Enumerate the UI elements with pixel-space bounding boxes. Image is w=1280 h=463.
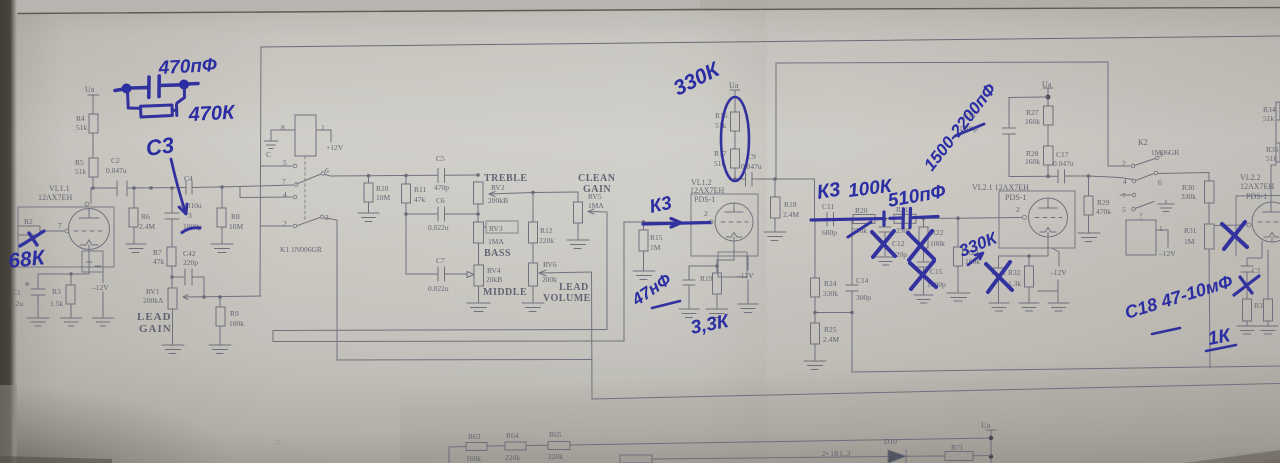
wire RV2 wiper bus to R12 and RV5 — [533, 191, 578, 194]
resistor R63 (horizontal) — [466, 443, 487, 451]
ground under R23 — [947, 293, 970, 301]
wire RV4 bottom to ground — [478, 286, 480, 303]
INK:blue handwriting — [7, 55, 1259, 351]
heater wire -12V VL1.1 — [102, 267, 104, 318]
junction dots C6 row — [404, 212, 480, 216]
svg-text:K1 1N006GR: K1 1N006GR — [280, 245, 322, 254]
ground under R19 — [706, 309, 728, 318]
svg-text:20kB: 20kB — [486, 275, 502, 284]
junction dot C12 node — [883, 217, 887, 221]
IC box bottom partial — [620, 455, 652, 463]
svg-text:R27: R27 — [1026, 108, 1039, 117]
junction dot cathode node — [69, 272, 73, 276]
handwritten slash over C19 — [1234, 276, 1259, 295]
diode D10 — [888, 450, 906, 463]
capacitor C3 — [165, 188, 179, 245]
svg-text:8: 8 — [281, 123, 285, 132]
K1 contact 5 — [261, 165, 292, 167]
ground under C1 — [27, 318, 49, 326]
ground under R18 — [764, 232, 786, 241]
K2 contact 5 — [1132, 207, 1136, 211]
bottom darker right half — [0, 0, 1, 1]
ground under heater — [92, 318, 114, 326]
wire: vertical from RV6 wiper down — [591, 272, 594, 399]
capacitor C5 — [438, 169, 445, 183]
potentiometer RV6 LEAD VOLUME — [529, 263, 538, 286]
wire RV3 to RV4 — [478, 243, 480, 265]
svg-text:200k: 200k — [542, 275, 557, 284]
svg-text:C1: C1 — [1252, 266, 1261, 275]
enclosure box K1 tone area: top edge — [261, 36, 1280, 47]
potentiometer RV2 TREBLE — [474, 182, 484, 204]
handwritten X over C15 — [910, 261, 936, 289]
svg-text:4: 4 — [283, 190, 287, 199]
K1 dashed actuator line — [304, 156, 306, 222]
svg-text:2: 2 — [1122, 159, 1126, 168]
svg-text:0.022u: 0.022u — [428, 223, 449, 232]
top strip above sheet edge (slightly darker gray) — [0, 0, 1280, 15]
svg-text:–12V: –12V — [736, 271, 754, 280]
grid circle VL1.1 — [65, 229, 69, 233]
capacitor C6 — [438, 207, 445, 221]
svg-text:2• 1R1..3: 2• 1R1..3 — [822, 449, 851, 458]
wire RV5 top from wiper bus — [577, 192, 579, 202]
ground under R8 — [211, 244, 233, 253]
svg-text:+12V: +12V — [326, 143, 344, 152]
tube VL2.1 grid dashes — [1035, 217, 1062, 219]
svg-text:7: 7 — [58, 221, 62, 230]
wire RV5 bottom to ground — [577, 223, 579, 240]
K1 pin6 wire to tone bus — [325, 175, 368, 177]
handwritten sketch node dots — [122, 80, 190, 94]
K1 contact 2 — [261, 225, 292, 227]
svg-text:D10: D10 — [884, 437, 897, 446]
svg-text:51k: 51k — [75, 167, 87, 176]
tube VL2.2 grid dashes — [1258, 221, 1278, 223]
junction dots stage1 bus — [91, 185, 224, 190]
svg-text:PDS-1: PDS-1 — [694, 195, 715, 204]
svg-text:R3: R3 — [52, 287, 61, 296]
svg-text:C5: C5 — [436, 154, 445, 163]
grid circle VL1.2 — [709, 220, 713, 224]
faint vertical crease — [0, 0, 1, 1]
handwritten X near R31 — [1222, 222, 1247, 249]
node Ua stage1 — [88, 95, 99, 114]
svg-text:300p: 300p — [856, 293, 871, 302]
svg-text:12AX7EH: 12AX7EH — [690, 186, 724, 195]
svg-text:3: 3 — [1159, 150, 1163, 159]
wire R23 node to VL2.1 grid — [958, 216, 1022, 219]
svg-text:R16: R16 — [715, 111, 728, 120]
ground under R25 — [804, 361, 826, 370]
svg-text:220k: 220k — [539, 236, 554, 245]
potentiometer RV5 CLEAN GAIN — [574, 202, 583, 223]
resistor R2 input — [18, 226, 40, 235]
K1 moving arm 2-3 — [297, 218, 320, 226]
grid wire VL1.2 — [624, 221, 709, 223]
junction dots tone bus — [367, 173, 480, 177]
resistor R10 — [368, 176, 370, 213]
capacitor C12 — [879, 219, 891, 257]
tube VL1.1 circle — [69, 209, 110, 250]
cathode wire VL2.1 — [1029, 237, 1048, 266]
relay K1 coil box — [295, 115, 316, 156]
tube VL1.2 envelope box — [691, 194, 758, 256]
svg-text:Ua: Ua — [85, 85, 95, 94]
svg-text:220p: 220p — [183, 258, 198, 267]
cathode wire to node — [38, 249, 89, 274]
svg-text:C11: C11 — [822, 202, 834, 211]
capacitor C18 (crossed out) — [992, 256, 1029, 303]
RV6 wiper arrow — [539, 270, 592, 276]
svg-text:470пФ: 470пФ — [157, 55, 217, 79]
svg-text:470К: 470К — [187, 102, 236, 127]
wire RV2 bottom to RV3 — [477, 204, 479, 222]
wire RV6 bottom to ground — [532, 286, 534, 303]
wire: long output bus lower — [592, 384, 1280, 400]
svg-text:220k: 220k — [505, 453, 520, 462]
svg-text:4: 4 — [1123, 177, 1127, 186]
tube VL1.2 cathode chevron — [726, 233, 742, 242]
enclosure box VL1.2 area: top and sides — [776, 62, 1108, 179]
svg-text:R18: R18 — [784, 200, 797, 209]
svg-text:1MA: 1MA — [588, 201, 604, 210]
junction dot C42 to wiper wire — [202, 295, 206, 299]
handwritten slash over C16 value — [955, 124, 984, 136]
handwritten underline 47nF — [652, 301, 680, 308]
junction dot grid R15 — [642, 220, 646, 224]
svg-text:C42: C42 — [183, 249, 196, 258]
svg-text:RV2: RV2 — [491, 183, 505, 192]
svg-text:–12V: –12V — [1049, 268, 1067, 277]
svg-text:LEAD: LEAD — [559, 282, 589, 293]
svg-text:1: 1 — [1159, 224, 1163, 233]
svg-text:–12V: –12V — [1158, 249, 1176, 258]
tube VL2.2 anode plate — [1263, 202, 1280, 212]
tube VL1.1 envelope box — [18, 207, 114, 267]
resistor R21 (horizontal) — [894, 214, 916, 223]
junction dot R18 top — [773, 177, 777, 181]
resistor R28 — [1044, 146, 1054, 165]
junction dots R24/C14 — [813, 311, 854, 315]
wire R28 to anode line — [1047, 165, 1049, 176]
handwritten overdraw VL1.2 grid wire with arrow — [643, 219, 710, 228]
svg-text:C15: C15 — [930, 267, 943, 276]
svg-text:R64: R64 — [506, 431, 519, 440]
RV5 wiper arrow — [588, 209, 607, 214]
svg-text:2: 2 — [283, 219, 287, 228]
svg-text:R9: R9 — [230, 309, 239, 318]
svg-text:R10: R10 — [376, 184, 389, 193]
tube VL1.1 heater box — [82, 251, 103, 272]
svg-text:0.047u: 0.047u — [106, 166, 127, 175]
resistor R71 (horizontal) — [945, 452, 973, 461]
lower bottom wire partial — [652, 456, 991, 460]
svg-text:220k: 220k — [548, 452, 563, 461]
svg-text:200kA: 200kA — [143, 296, 164, 305]
ground under C12 — [876, 257, 895, 265]
svg-text:R12: R12 — [540, 226, 553, 235]
capacitor C2 — [117, 181, 127, 196]
node Ua VL1.2 — [730, 90, 740, 112]
K2 pin1 wire to -12V — [1156, 230, 1168, 247]
resistor R22 — [923, 218, 925, 262]
resistor R37 — [1267, 250, 1269, 326]
dark left photo edge — [0, 0, 17, 463]
handwritten slash over R20 value — [848, 222, 871, 237]
K1 pin3 wire down to bus L3 — [324, 218, 337, 360]
capacitor C11 — [827, 213, 834, 227]
svg-text:C1: C1 — [12, 288, 21, 297]
svg-text:VOLUME: VOLUME — [543, 293, 591, 304]
tube VL1.1 grid dashes — [74, 230, 102, 232]
RV3 label callout box — [486, 221, 518, 233]
wire R5 to anode bus — [92, 177, 94, 188]
tube VL2.2 envelope box — [1236, 196, 1280, 257]
svg-text:2.4M: 2.4M — [783, 210, 799, 219]
svg-text:R4: R4 — [76, 114, 85, 123]
resistor R6 — [133, 188, 135, 244]
svg-text:VL2.1 12AX7EH: VL2.1 12AX7EH — [972, 183, 1029, 192]
ground under R6 — [126, 244, 146, 253]
svg-text:1: 1 — [321, 123, 325, 132]
wire R24 node to C14 — [815, 312, 852, 314]
svg-text:C14: C14 — [856, 276, 869, 285]
wire R16-R17 — [734, 131, 736, 149]
svg-text:R35: R35 — [1266, 145, 1279, 154]
resistor R65 (horizontal) — [548, 442, 570, 450]
svg-text:51k: 51k — [1266, 154, 1278, 163]
wire R30 to R31 — [1208, 203, 1210, 224]
svg-text:47k: 47k — [414, 195, 426, 204]
handwritten X over C12 — [872, 231, 895, 257]
svg-text:R30: R30 — [1182, 183, 1195, 192]
svg-text:680p: 680p — [822, 228, 837, 237]
svg-text:R15: R15 — [650, 233, 663, 242]
ground under RV4 — [467, 303, 490, 312]
RV1 wiper arrow — [183, 295, 261, 300]
svg-text:12AX7EH: 12AX7EH — [1240, 182, 1274, 191]
svg-text:RV4: RV4 — [487, 266, 501, 275]
svg-text:0.022u: 0.022u — [428, 284, 449, 293]
resistor R9 — [219, 297, 221, 345]
anode wire to C9 — [735, 178, 745, 180]
svg-text:1M: 1M — [1184, 237, 1195, 246]
bottom-right dark wedge — [1160, 440, 1280, 463]
svg-text:0.047u: 0.047u — [1053, 159, 1074, 168]
svg-text:2: 2 — [1016, 205, 1020, 214]
wire R2 to grid, pin 7 — [40, 230, 65, 232]
wire R27-R28 — [1047, 125, 1049, 146]
ground under R15 — [633, 271, 655, 280]
svg-text:R29: R29 — [1097, 198, 1110, 207]
svg-text:BASS: BASS — [484, 248, 511, 259]
svg-text:470p: 470p — [434, 183, 449, 192]
grid circle VL2.2 — [1247, 223, 1251, 227]
K2 moving arm 2-3 — [1135, 159, 1156, 166]
svg-text:K2: K2 — [1138, 138, 1148, 147]
enclosure box K1 tone area: left edge — [260, 47, 261, 296]
svg-text:7: 7 — [1122, 191, 1126, 200]
svg-text:5: 5 — [283, 158, 287, 167]
handwritten X over C18 — [986, 262, 1012, 292]
K2 moving arm 4-6 — [1136, 174, 1155, 181]
svg-text:R65: R65 — [549, 430, 562, 439]
wire corner to C11 — [815, 218, 828, 220]
ground under R3 — [60, 318, 82, 326]
handwritten capacitor sketch 510pF — [890, 209, 938, 229]
svg-text:R19: R19 — [700, 274, 713, 283]
svg-text:C7: C7 — [436, 256, 445, 265]
wire: vertical from RV5 wiper down to L1 — [606, 212, 608, 330]
wire C7 to RV4 wiper — [445, 272, 475, 278]
resistor R27 — [1044, 106, 1054, 125]
wire C9 to corner — [752, 179, 815, 220]
junction dot R23 node — [956, 216, 960, 220]
tube VL1.1 cathode chevron — [80, 240, 98, 249]
K2 contact 2 wire from box3 edge — [1108, 165, 1130, 167]
K1 contact 7 with wire from stage1 — [240, 185, 293, 187]
wire Ua node left to C16 — [1009, 97, 1048, 128]
ground under R10 — [358, 213, 379, 222]
tube VL2.1 anode plate — [1039, 198, 1057, 208]
left strip bottom fade — [0, 385, 17, 463]
resistor R34 (right edge) — [1271, 120, 1276, 202]
tube VL2.1 cathode chevron — [1040, 228, 1056, 238]
bottom edge dark bar left — [0, 456, 112, 463]
resistor R36 — [1243, 299, 1252, 321]
svg-text:330k: 330k — [1181, 192, 1196, 201]
svg-text:C6: C6 — [436, 196, 445, 205]
svg-text:7: 7 — [282, 177, 286, 186]
svg-text:PDS-1: PDS-1 — [1005, 193, 1026, 202]
handwritten scribble over 1000p — [182, 228, 200, 233]
potentiometer RV4 MIDDLE — [474, 265, 484, 286]
resistor R8 — [221, 187, 223, 244]
svg-text:R31: R31 — [1184, 226, 1197, 235]
resistor R4 — [89, 114, 98, 133]
handwritten arrow under 330K — [968, 253, 983, 265]
wire: tone output bus L1 (clean gain wiper loop) — [273, 330, 607, 331]
svg-text:R5: R5 — [75, 158, 84, 167]
handwritten slash over R2 — [20, 231, 44, 246]
handwritten capacitor sketch 470pF — [115, 76, 198, 97]
resistor R12 — [532, 193, 534, 264]
junction dots anode line — [1046, 174, 1090, 178]
svg-text:1M: 1M — [650, 243, 661, 252]
svg-text:R6: R6 — [141, 212, 150, 221]
svg-text:3: 3 — [188, 211, 192, 220]
tube VL1.2 grid dashes — [721, 221, 748, 223]
potentiometer RV1 — [168, 288, 177, 309]
relay K2 coil box — [1126, 220, 1156, 255]
capacitor C9 — [746, 173, 753, 187]
resistor R15 — [643, 222, 645, 271]
ground under RV5 — [567, 240, 589, 249]
resistor R7 — [171, 245, 173, 288]
resistor R24 — [814, 219, 816, 312]
heater -12V VL2.1 — [1052, 248, 1059, 266]
svg-text:R63: R63 — [468, 432, 481, 441]
K1 contact 4 with wire — [240, 187, 292, 198]
wire to ground with elbow — [1038, 280, 1058, 303]
capacitor C19 (crossed out) — [1241, 241, 1262, 299]
wire C6 row — [406, 213, 478, 215]
ground pin8 — [264, 141, 278, 149]
svg-text:Ua: Ua — [1042, 80, 1052, 89]
long bottom wire to Ua node — [570, 438, 991, 445]
ground under R32 — [1019, 303, 1039, 311]
ground under C18 — [989, 303, 1009, 311]
K2 contact 7 — [1120, 194, 1131, 196]
svg-text:C2: C2 — [111, 156, 120, 165]
capacitor C4 — [186, 181, 192, 194]
handwritten resistor sketch 470K — [128, 88, 185, 117]
svg-text:С3: С3 — [144, 132, 175, 161]
tube VL1.2 circle — [715, 203, 753, 241]
wire: stage1 anode bus y=188 — [93, 187, 240, 189]
K2 contact 4 — [1132, 179, 1136, 183]
capacitor C7 — [406, 267, 445, 281]
svg-text:12AX7EH: 12AX7EH — [38, 193, 72, 202]
capacitor C1 (electrolytic) — [25, 274, 45, 318]
K2 moving arm 5-x — [1135, 202, 1154, 209]
junction dot Ua VL2.1 — [1046, 95, 1051, 100]
svg-text:LEAD: LEAD — [137, 311, 172, 323]
ground under elbow — [1048, 303, 1069, 311]
svg-text:C17: C17 — [1056, 150, 1069, 159]
svg-text:RV5: RV5 — [588, 192, 602, 201]
svg-text:51k: 51k — [1263, 114, 1275, 123]
svg-text:–12V: –12V — [91, 283, 109, 292]
svg-text:PDS-1: PDS-1 — [1246, 192, 1267, 201]
resistor R19 — [713, 273, 722, 294]
resistor R35 (right edge) — [1276, 143, 1280, 162]
potentiometer RV3 BASS — [474, 222, 484, 243]
svg-text:160k: 160k — [1025, 117, 1040, 126]
handwritten arrow C3 — [171, 159, 187, 214]
svg-text:C4: C4 — [184, 174, 193, 183]
ground under RV6 — [522, 303, 544, 312]
svg-text:R34: R34 — [1263, 105, 1276, 114]
resistor R25 — [814, 313, 816, 362]
capacitor C14 — [846, 219, 858, 312]
wire to VL2.2 grid — [1214, 224, 1246, 227]
wire: L1 left end down to L2 — [272, 331, 274, 342]
K1 moving arm 7-6 — [297, 174, 321, 184]
ground under R9 — [209, 345, 231, 354]
svg-text:100k: 100k — [930, 239, 945, 248]
svg-text:К3: К3 — [815, 179, 842, 204]
bottom-left darker corner — [0, 343, 360, 463]
svg-text:1MA: 1MA — [488, 237, 504, 246]
cathode node VL1.2 — [717, 241, 734, 273]
svg-text:160k: 160k — [466, 454, 481, 463]
resistor R18 — [774, 179, 776, 232]
wire R21 to R22 node — [916, 217, 958, 219]
handwritten X over R22 — [908, 231, 934, 260]
svg-text:C12: C12 — [892, 239, 905, 248]
svg-text:RV1: RV1 — [146, 287, 160, 296]
svg-text:R3: R3 — [1254, 301, 1263, 310]
resistor R23 — [957, 218, 959, 293]
wire RV1 bottom to ground — [172, 309, 174, 345]
resistor R30 — [1205, 181, 1215, 203]
junction dot R22 node — [922, 217, 926, 221]
svg-text:330k: 330k — [823, 289, 838, 298]
wire C11 to R20 — [834, 218, 854, 220]
resistor R16 — [731, 112, 740, 131]
